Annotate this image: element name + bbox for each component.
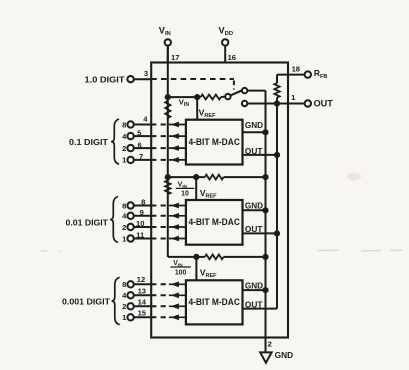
svg-text:0.001 DIGIT: 0.001 DIGIT bbox=[62, 297, 111, 307]
node U2 GND junction bbox=[262, 207, 268, 213]
svg-text:0.01 DIGIT: 0.01 DIGIT bbox=[66, 217, 109, 227]
pin number 6 bbox=[137, 140, 141, 149]
pin number 10 bbox=[136, 219, 144, 228]
svg-text:OUT: OUT bbox=[314, 98, 334, 108]
wire bit input to U1 (pin 4) bbox=[151, 122, 186, 128]
resistor R2 (1.0 digit) bbox=[201, 95, 221, 100]
wire U1 OUT stub bbox=[243, 154, 278, 156]
pin number 17 bbox=[171, 53, 179, 62]
svg-text:8: 8 bbox=[122, 280, 126, 289]
resistor R4 (stage-2 ladder) bbox=[205, 175, 224, 180]
wire bit input to U2 (pin 8) bbox=[151, 203, 186, 209]
svg-text:1.0 DIGIT: 1.0 DIGIT bbox=[85, 75, 126, 85]
wire pin 3 lead-in bbox=[134, 78, 151, 80]
pin number 3 bbox=[144, 69, 148, 78]
svg-text:0.1 DIGIT: 0.1 DIGIT bbox=[69, 137, 109, 147]
pin number 9 bbox=[140, 208, 144, 217]
label VIN (stage 1 tap) bbox=[179, 97, 190, 108]
chip outline (18-pin package boundary) bbox=[151, 63, 288, 338]
terminal 1.0 digit (pin 3) bbox=[127, 76, 133, 82]
terminal 0.1-digit bit 2 (pin 6) bbox=[122, 144, 151, 153]
terminal 0.001-digit bit 4 (pin 13) bbox=[122, 291, 151, 300]
pin number 16 bbox=[228, 53, 236, 62]
wire switch GND-contact to GND bus bbox=[247, 90, 265, 92]
svg-text:17: 17 bbox=[171, 53, 179, 62]
wire bit input to U3 (pin 13) bbox=[151, 292, 186, 298]
node U1 GND junction bbox=[262, 129, 268, 135]
svg-text:4-BIT M-DAC: 4-BIT M-DAC bbox=[188, 217, 240, 227]
op-block U2 4-BIT M-DAC (0.01 digit) bbox=[186, 200, 243, 245]
brace 0.001 digit group bbox=[112, 277, 120, 324]
wire R5 to GND bus bbox=[224, 256, 266, 258]
svg-text:2: 2 bbox=[122, 144, 126, 153]
label VREF1 bbox=[199, 108, 217, 120]
label OUT bbox=[314, 98, 334, 108]
resistor R1 (VIN series) bbox=[165, 101, 170, 118]
wire bit input to U2 (pin 11) bbox=[151, 236, 186, 242]
wire U2 OUT stub bbox=[243, 232, 278, 234]
svg-text:8: 8 bbox=[122, 120, 126, 129]
terminal 0.1-digit bit 1 (pin 7) bbox=[122, 156, 151, 165]
wire GND bus bbox=[265, 91, 267, 353]
label U3 OUT bbox=[245, 300, 263, 309]
pin number 7 bbox=[139, 152, 143, 161]
scan artifact marks bbox=[41, 173, 402, 252]
terminal 0.01-digit bit 1 (pin 11) bbox=[122, 234, 151, 243]
resistor R3 (VIN series) bbox=[165, 181, 170, 195]
node U3 GND junction bbox=[262, 287, 268, 293]
label VIN bbox=[159, 26, 171, 38]
wire bit input to U2 (pin 9) bbox=[151, 213, 186, 219]
svg-text:10: 10 bbox=[181, 190, 189, 197]
wire VREF1 bbox=[196, 97, 198, 120]
pin number 5 bbox=[137, 128, 142, 137]
brace 0.1 digit group bbox=[111, 119, 119, 164]
wire VIN bus bbox=[167, 46, 169, 257]
terminal 0.001-digit bit 2 (pin 14) bbox=[122, 302, 151, 311]
svg-text:10: 10 bbox=[136, 219, 144, 228]
terminal 0.01-digit bit 4 (pin 9) bbox=[122, 212, 151, 221]
terminal VDD (pin 16) bbox=[222, 39, 228, 62]
node VIN tap 2 bbox=[165, 174, 171, 180]
label GND bbox=[275, 350, 294, 360]
terminal 0.1-digit bit 4 (pin 5) bbox=[122, 132, 151, 141]
node U2 OUT junction bbox=[274, 230, 280, 236]
wire RFB top bbox=[277, 74, 305, 76]
label VREF3 bbox=[200, 268, 217, 280]
wire stage-1 reference bbox=[168, 96, 201, 98]
svg-text:GND: GND bbox=[245, 202, 263, 211]
label VDD bbox=[219, 26, 234, 38]
label U1 GND bbox=[245, 121, 263, 130]
svg-text:4-BIT M-DAC: 4-BIT M-DAC bbox=[188, 297, 240, 307]
terminal 0.01-digit bit 2 (pin 10) bbox=[122, 223, 151, 232]
brace 0.01 digit group bbox=[110, 197, 118, 243]
node R4-GND junction bbox=[262, 174, 268, 180]
wire U3 GND stub bbox=[243, 289, 266, 291]
label 0.001 DIGIT bbox=[62, 297, 111, 307]
label U3 GND bbox=[245, 281, 263, 290]
wire stage-3 reference bbox=[168, 256, 205, 258]
wire bit input to U3 (pin 14) bbox=[151, 303, 186, 309]
pin number 15 bbox=[138, 308, 147, 317]
node VREF2 tap bbox=[193, 174, 199, 180]
label VIN/10 fraction bbox=[176, 182, 194, 198]
label 0.01 DIGIT bbox=[66, 217, 109, 227]
svg-text:9: 9 bbox=[140, 208, 144, 217]
svg-text:16: 16 bbox=[228, 53, 236, 62]
wire OUT (pin 1) bbox=[247, 103, 304, 105]
wire U1 GND stub bbox=[243, 131, 266, 133]
svg-text:18: 18 bbox=[292, 65, 300, 74]
svg-text:100: 100 bbox=[175, 269, 187, 276]
wire R4 to GND bus bbox=[224, 176, 266, 178]
svg-text:OUT: OUT bbox=[245, 147, 263, 156]
switch S1 blade bbox=[230, 90, 243, 96]
wire bit input to U1 (pin 7) bbox=[151, 157, 186, 163]
label 1.0 DIGIT bbox=[85, 75, 126, 85]
wire VREF2 bbox=[195, 177, 197, 200]
wire U3 OUT stub bbox=[243, 308, 278, 310]
wire stage-2 reference bbox=[168, 176, 205, 178]
svg-text:2: 2 bbox=[122, 223, 126, 232]
svg-text:GND: GND bbox=[245, 281, 263, 290]
pin number 4 bbox=[143, 114, 148, 123]
terminal 0.1-digit bit 8 (pin 4) bbox=[122, 120, 151, 129]
svg-text:8: 8 bbox=[141, 197, 145, 206]
terminal OUT (pin 1) bbox=[305, 100, 311, 106]
svg-text:12: 12 bbox=[137, 275, 145, 284]
label VREF2 bbox=[200, 188, 217, 200]
svg-text:3: 3 bbox=[144, 69, 148, 78]
svg-text:14: 14 bbox=[138, 297, 147, 306]
pin number 13 bbox=[138, 286, 146, 295]
pin number 18 bbox=[292, 65, 300, 74]
label U1 OUT bbox=[245, 147, 263, 156]
label VIN/100 fraction bbox=[170, 260, 191, 277]
pin number 14 bbox=[138, 297, 147, 306]
terminal 0.001-digit bit 1 (pin 15) bbox=[122, 313, 151, 322]
svg-text:6: 6 bbox=[137, 140, 141, 149]
node OUT junction bbox=[274, 100, 280, 106]
terminal 0.01-digit bit 8 (pin 8) bbox=[122, 201, 151, 210]
wire U2 GND stub bbox=[243, 209, 266, 211]
terminal RFB (pin 18) bbox=[305, 71, 311, 77]
pin number 1 bbox=[291, 93, 296, 102]
svg-text:4-BIT M-DAC: 4-BIT M-DAC bbox=[188, 137, 240, 147]
svg-text:8: 8 bbox=[122, 201, 126, 210]
terminal 0.001-digit bit 8 (pin 12) bbox=[122, 280, 151, 289]
svg-text:OUT: OUT bbox=[245, 225, 263, 234]
pin number 11 bbox=[136, 231, 145, 240]
label RFB bbox=[314, 68, 328, 80]
node VIN tap 1 bbox=[165, 94, 171, 100]
resistor R5 (stage-3 ladder) bbox=[205, 254, 224, 259]
node VREF1 tap bbox=[194, 94, 200, 100]
ground symbol bbox=[260, 352, 271, 362]
op-block U3 4-BIT M-DAC (0.001 digit) bbox=[186, 280, 243, 324]
wire bit input to U3 (pin 12) bbox=[151, 281, 186, 287]
svg-text:13: 13 bbox=[138, 286, 146, 295]
pin number 8 bbox=[141, 197, 145, 206]
svg-text:GND: GND bbox=[245, 121, 263, 130]
node R5-GND junction bbox=[262, 254, 268, 260]
switch S1 contact (GND side) bbox=[242, 88, 247, 93]
wire pin 3 control (dashed) bbox=[151, 79, 234, 90]
switch S1 contact (OUT side) bbox=[242, 101, 247, 106]
wire bit input to U2 (pin 10) bbox=[151, 224, 186, 230]
label U2 GND bbox=[245, 202, 263, 211]
node VREF3 tap bbox=[193, 254, 199, 260]
svg-text:7: 7 bbox=[139, 152, 143, 161]
pin number 12 bbox=[137, 275, 145, 284]
wire VREF3 bbox=[195, 257, 197, 280]
svg-text:15: 15 bbox=[138, 308, 147, 317]
wire bit input to U1 (pin 6) bbox=[151, 145, 186, 151]
pin number 2 bbox=[268, 339, 272, 348]
svg-text:OUT: OUT bbox=[245, 300, 263, 309]
wire bit input to U3 (pin 15) bbox=[151, 314, 186, 320]
wire R2 to switch pole bbox=[221, 96, 225, 98]
svg-text:11: 11 bbox=[136, 231, 145, 240]
svg-text:2: 2 bbox=[268, 339, 272, 348]
svg-text:2: 2 bbox=[122, 302, 126, 311]
wire bit input to U1 (pin 5) bbox=[151, 133, 186, 139]
op-block U1 4-BIT M-DAC (0.1 digit) bbox=[186, 120, 243, 165]
wire OUT bus bbox=[276, 104, 278, 309]
node U1 OUT junction bbox=[274, 152, 280, 158]
resistor RFB bbox=[274, 75, 279, 104]
switch S1 pole contact bbox=[225, 94, 230, 99]
label 0.1 DIGIT bbox=[69, 137, 109, 147]
terminal VIN (pin 17) bbox=[165, 39, 171, 62]
svg-text:GND: GND bbox=[275, 350, 294, 360]
wire GND pin lead-out bbox=[265, 338, 267, 353]
label U2 OUT bbox=[245, 225, 263, 234]
